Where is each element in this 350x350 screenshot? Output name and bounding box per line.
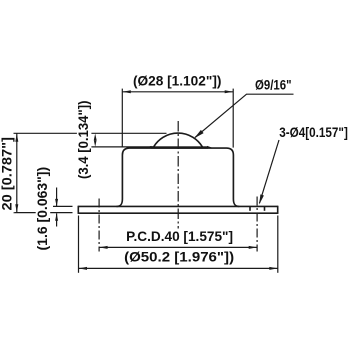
ball (protruding dome) [154, 133, 203, 147]
svg-text:(Ø50.2 [1.976"]): (Ø50.2 [1.976"]) [124, 249, 234, 265]
extension line left of cup top (Ø28) [121, 89, 123, 148]
bolt hole edges (right hole) [249, 207, 251, 211]
leader line for bolt hole label [259, 140, 279, 203]
svg-text:P.C.D.40 [1.575"]: P.C.D.40 [1.575"] [126, 228, 233, 244]
extension line at flange bottom (for 20 and 1.6 dims) [14, 212, 73, 214]
leader line for ball diameter label [195, 94, 294, 137]
svg-text:3-Ø4[0.157"]: 3-Ø4[0.157"] [279, 124, 348, 140]
extension line below flange right (Ø50.2) [277, 216, 279, 273]
dimension line Ø50.2 [79, 267, 278, 269]
flange top line [78, 205, 277, 207]
housing cup outline [117, 148, 240, 206]
rotated label (3.4 [0.134"]) [75, 99, 91, 181]
ball seat band (thick edge under ball) [151, 146, 209, 148]
extension line right of cup top (Ø28) [232, 89, 234, 148]
right bolt-hole centerline [256, 197, 258, 252]
seat chamfer left [147, 147, 152, 149]
extension line stub at flange top (for 1.6 dim) [53, 205, 73, 207]
svg-text:(1.6 [0.063"]): (1.6 [0.063"]) [34, 167, 50, 251]
svg-text:Ø9/16": Ø9/16" [255, 77, 292, 93]
rotated label 20 [0.787"] (left) [0, 135, 15, 212]
dimension arrows 1.6 mm (vertical, outside flange) [56, 188, 58, 207]
flange right end [277, 206, 279, 214]
extension line at cup lip level (for 3.4 dim) [90, 146, 153, 148]
dimension arrows 3.4 mm (vertical, between ball top and lip) [94, 134, 97, 141]
left bolt-hole centerline [98, 199, 100, 252]
rotated label (1.6 [0.063"]) [34, 165, 50, 253]
extension line tangent to ball top (for 20 and 3.4 dims) [14, 132, 167, 134]
svg-text:(3.4 [0.134"]): (3.4 [0.134"]) [75, 101, 91, 180]
svg-text:(Ø28 [1.102"]): (Ø28 [1.102"]) [133, 72, 222, 88]
main vertical centerline [177, 121, 179, 229]
dimension line 20 mm (vertical, left) [16, 133, 18, 212]
extension line below flange left (Ø50.2) [78, 216, 80, 273]
dimension line P.C.D.40 [99, 246, 257, 248]
svg-text:20 [0.787"]: 20 [0.787"] [0, 137, 14, 211]
flange bottom line [78, 212, 277, 214]
seat chamfer right [207, 147, 212, 149]
dimension line Ø28 (top horizontal) [122, 91, 233, 93]
flange left end [77, 206, 79, 214]
